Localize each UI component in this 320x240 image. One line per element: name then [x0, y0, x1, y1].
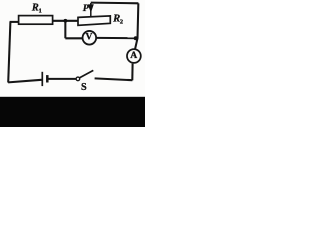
svg-text:A: A	[130, 50, 137, 61]
svg-text:S: S	[81, 82, 87, 93]
svg-text:1: 1	[39, 7, 42, 14]
svg-text:V: V	[86, 31, 93, 42]
svg-text:P: P	[83, 3, 90, 14]
